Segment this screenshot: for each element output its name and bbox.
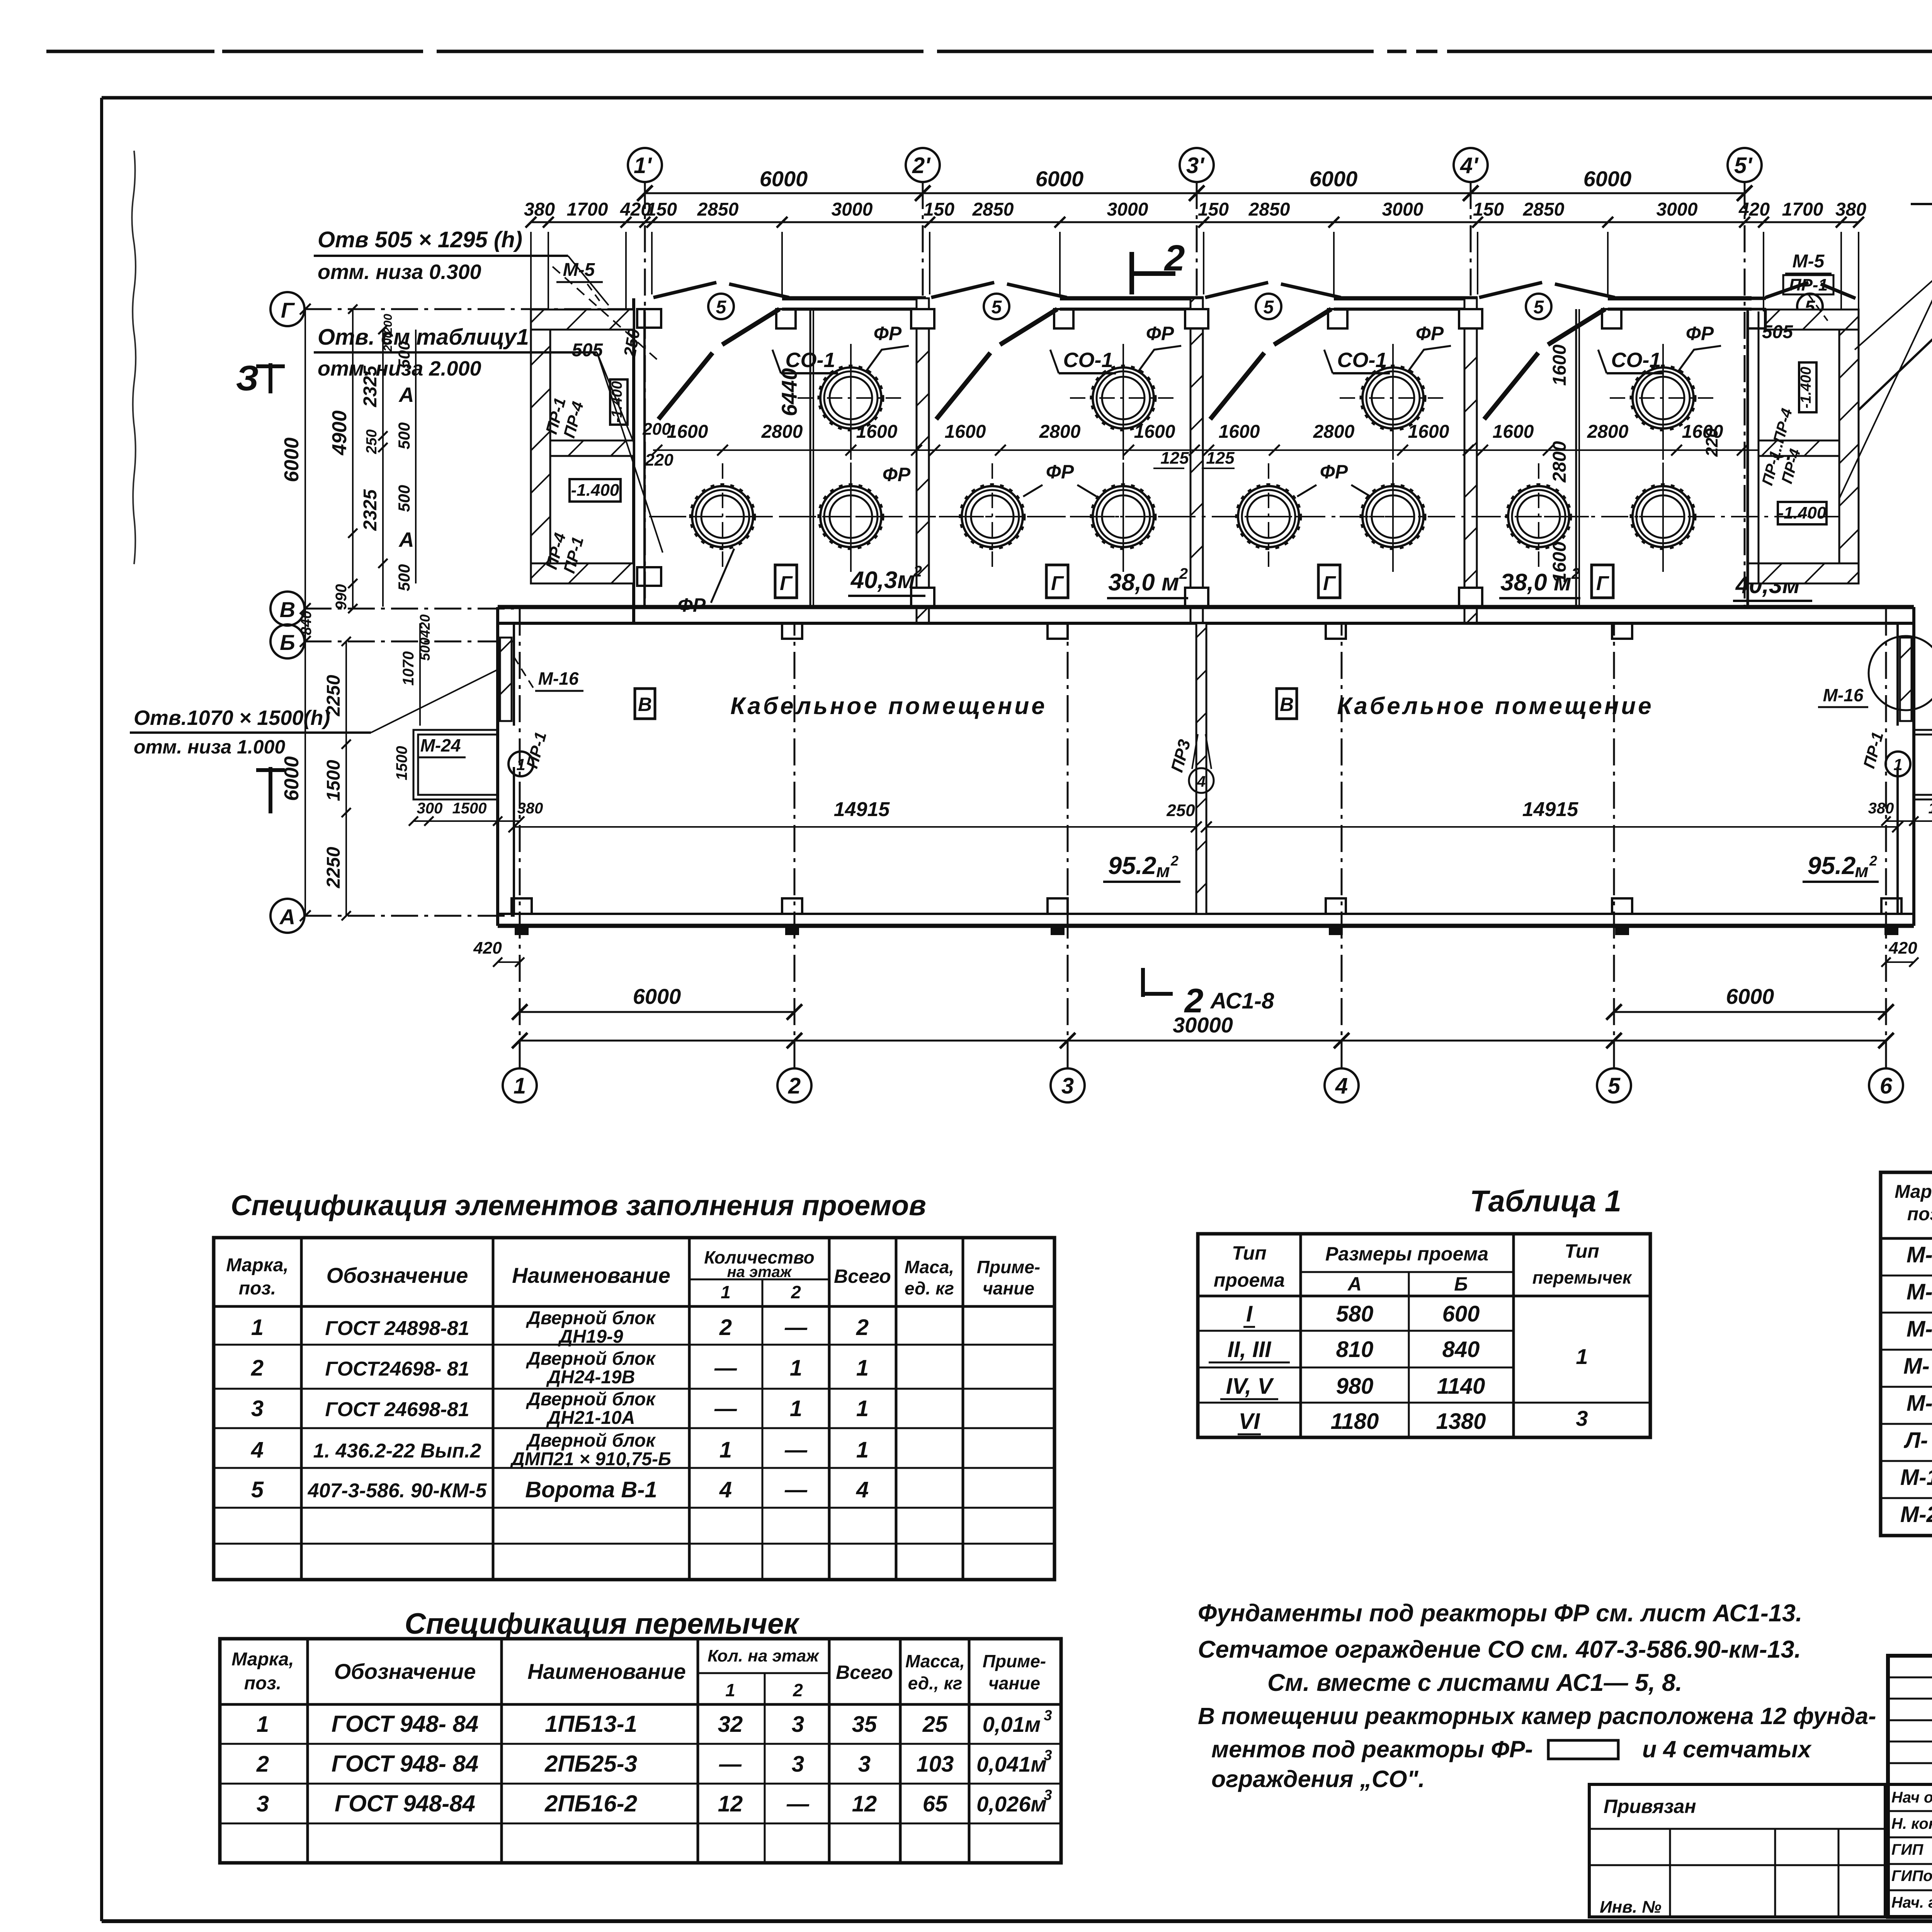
- top dimension row 6000 spacing: [645, 192, 1745, 194]
- svg-text:СО-1: СО-1: [1337, 349, 1387, 372]
- svg-text:ДН19-9: ДН19-9: [558, 1327, 623, 1347]
- svg-text:-1.400: -1.400: [1798, 367, 1814, 408]
- svg-text:150: 150: [646, 199, 677, 220]
- svg-text:6000: 6000: [1583, 167, 1632, 191]
- hatched chamber divider walls at 2p 3p 4p: [917, 298, 929, 623]
- svg-text:5: 5: [1608, 1073, 1621, 1099]
- gate label circles 5: [708, 294, 734, 319]
- svg-text:32: 32: [718, 1712, 743, 1737]
- svg-text:5: 5: [1264, 297, 1274, 318]
- cable block east wall: [1912, 607, 1915, 926]
- svg-text:6000: 6000: [281, 437, 303, 482]
- svg-text:ПР-1: ПР-1: [1789, 276, 1828, 294]
- svg-text:ГОСТ 948- 84: ГОСТ 948- 84: [332, 1711, 479, 1737]
- reactor foundation FR top 3: [1340, 344, 1446, 572]
- right annex west wall: [1747, 311, 1749, 607]
- svg-text:380: 380: [517, 800, 543, 817]
- svg-text:А: А: [398, 528, 414, 551]
- М-24 annex right: [1914, 730, 1932, 799]
- Таблица 1 box: [1198, 1234, 1650, 1437]
- table металлоконструкции box: [1881, 1172, 1932, 1536]
- svg-text:1: 1: [856, 1396, 869, 1421]
- svg-text:ГОСТ 948- 84: ГОСТ 948- 84: [332, 1751, 479, 1777]
- svg-text:Инв. №: Инв. №: [1600, 1898, 1662, 1917]
- section mark 2 bottom: [1141, 968, 1145, 997]
- svg-text:1500: 1500: [452, 800, 487, 817]
- svg-text:3000: 3000: [832, 199, 873, 220]
- svg-text:Дверной блок: Дверной блок: [526, 1389, 656, 1410]
- svg-text:Приме-: Приме-: [983, 1651, 1046, 1671]
- svg-text:6000: 6000: [1036, 167, 1084, 191]
- М-16 louvre strip left: [500, 638, 512, 721]
- svg-text:6000: 6000: [760, 167, 808, 191]
- room marker Г: [1046, 565, 1068, 598]
- svg-text:1600: 1600: [1134, 422, 1175, 442]
- cable block top wall (shared): [498, 605, 1914, 609]
- svg-text:1: 1: [721, 1282, 731, 1302]
- sheet top edge line: [46, 50, 214, 53]
- svg-text:Масса,: Масса,: [905, 1651, 965, 1671]
- svg-text:ФР: ФР: [1686, 323, 1714, 344]
- fence СО-1 chamber 2: [936, 353, 990, 419]
- left annex interior divider: [550, 440, 634, 456]
- svg-text:Отв.1070 × 1500(h): Отв.1070 × 1500(h): [134, 706, 330, 730]
- svg-text:Дверной блок: Дверной блок: [526, 1349, 656, 1369]
- svg-text:1: 1: [1576, 1344, 1588, 1369]
- svg-text:125: 125: [1160, 449, 1189, 468]
- reactor foundation FR bottom 5: [1215, 463, 1322, 570]
- svg-text:103: 103: [917, 1752, 954, 1777]
- grid circle letter Г: [270, 292, 304, 326]
- paper fold line: [132, 151, 136, 564]
- svg-text:0,041м: 0,041м: [976, 1752, 1047, 1776]
- М-16 louvre strip right: [1900, 638, 1912, 721]
- reactor foundation FR bottom 8: [1610, 463, 1716, 572]
- svg-text:отм. низа 1.000: отм. низа 1.000: [134, 736, 285, 758]
- svg-text:Б: Б: [280, 630, 295, 655]
- svg-text:ГОСТ 948-84: ГОСТ 948-84: [335, 1791, 475, 1816]
- svg-text:Г: Г: [1596, 572, 1609, 595]
- svg-text:25: 25: [922, 1712, 948, 1737]
- svg-text:1600: 1600: [945, 422, 986, 442]
- svg-text:1180: 1180: [1331, 1409, 1379, 1434]
- left dim chain 2325 250 2325: [382, 330, 384, 607]
- svg-text:1': 1': [634, 153, 652, 178]
- right annex hatched bottom wall: [1748, 563, 1859, 583]
- svg-text:ГИП: ГИП: [1891, 1841, 1923, 1858]
- svg-text:В: В: [638, 694, 652, 715]
- svg-text:420: 420: [1738, 199, 1770, 220]
- svg-text:3: 3: [1061, 1073, 1074, 1099]
- left dim chain 6000: [304, 309, 306, 916]
- cable block west wall: [496, 607, 499, 926]
- svg-text:Размеры проема: Размеры проема: [1325, 1243, 1488, 1265]
- М-16 detail circle right: [1869, 636, 1932, 710]
- grid circle letter Б: [270, 624, 304, 658]
- second dimension row detailed: [531, 221, 1859, 223]
- svg-text:2800: 2800: [1039, 422, 1081, 442]
- svg-text:1500: 1500: [393, 746, 410, 781]
- svg-text:3: 3: [257, 1791, 269, 1816]
- svg-text:—: —: [784, 1437, 808, 1463]
- svg-text:Обозначение: Обозначение: [334, 1659, 476, 1684]
- svg-text:5': 5': [1734, 153, 1753, 178]
- svg-text:6440: 6440: [777, 368, 801, 417]
- svg-text:2ПБ25-3: 2ПБ25-3: [544, 1751, 637, 1777]
- svg-text:1140: 1140: [1437, 1374, 1485, 1399]
- svg-text:I: I: [1246, 1301, 1253, 1327]
- svg-text:2: 2: [719, 1315, 732, 1340]
- cable block bottom wall: [498, 913, 1914, 915]
- svg-text:Отв. см таблицу1: Отв. см таблицу1: [318, 325, 529, 350]
- svg-text:2850: 2850: [1248, 199, 1290, 220]
- reactor foundation FR bottom 1: [669, 463, 776, 570]
- svg-text:проема: проема: [1214, 1269, 1285, 1291]
- svg-text:12: 12: [718, 1791, 743, 1816]
- svg-text:1600: 1600: [1549, 344, 1570, 386]
- svg-text:отм. низа 0.300: отм. низа 0.300: [318, 260, 481, 284]
- svg-text:ДН21-10А: ДН21-10А: [546, 1408, 635, 1428]
- svg-text:125: 125: [1206, 449, 1235, 468]
- svg-text:3000: 3000: [1656, 199, 1698, 220]
- svg-text:ФР: ФР: [883, 464, 911, 485]
- reactor foundation FR top 1: [798, 344, 904, 572]
- svg-text:ФР: ФР: [1046, 461, 1074, 483]
- reactor block top wall segments: [782, 296, 926, 301]
- svg-text:2: 2: [1170, 853, 1179, 869]
- svg-text:2ПБ16-2: 2ПБ16-2: [544, 1791, 637, 1816]
- svg-text:0,026м: 0,026м: [976, 1792, 1047, 1816]
- svg-text:Отв 505 × 1295 (h): Отв 505 × 1295 (h): [318, 227, 522, 252]
- svg-text:Таблица 1: Таблица 1: [1470, 1184, 1621, 1218]
- svg-text:В: В: [280, 597, 295, 622]
- svg-text:—: —: [784, 1315, 808, 1340]
- svg-text:65: 65: [923, 1791, 948, 1816]
- svg-text:1070: 1070: [400, 651, 417, 686]
- grid circle letter А: [270, 899, 304, 933]
- svg-text:М-5: М-5: [563, 260, 595, 280]
- svg-text:1: 1: [719, 1437, 732, 1463]
- svg-text:1: 1: [856, 1355, 869, 1381]
- svg-text:220: 220: [645, 451, 673, 469]
- svg-text:3: 3: [1576, 1406, 1588, 1430]
- svg-text:0,01м: 0,01м: [983, 1712, 1041, 1736]
- grid circle 4: [1325, 1068, 1359, 1102]
- svg-text:ФР: ФР: [1416, 323, 1444, 344]
- grid circle 1: [503, 1068, 537, 1102]
- svg-text:2: 2: [251, 1355, 264, 1381]
- svg-text:ФР: ФР: [1146, 323, 1174, 344]
- svg-text:420: 420: [417, 614, 433, 638]
- svg-text:Фундаменты под реакторы ФР: Фундаменты под реакторы ФР см. лист АС1-…: [1198, 1600, 1802, 1627]
- svg-text:35: 35: [852, 1712, 877, 1737]
- svg-text:300: 300: [417, 800, 443, 817]
- svg-text:1ПБ13-1: 1ПБ13-1: [545, 1711, 637, 1737]
- fence СО-1 chamber 4: [1484, 353, 1538, 419]
- right annex top wall stub: [1752, 297, 1766, 300]
- svg-text:5: 5: [251, 1477, 264, 1502]
- svg-text:Марка,: Марка,: [226, 1255, 289, 1276]
- svg-text:Г: Г: [780, 572, 793, 595]
- svg-text:1: 1: [257, 1712, 269, 1737]
- cable block middle wall ПР3: [1196, 623, 1206, 914]
- svg-text:420: 420: [1888, 939, 1917, 957]
- svg-text:3: 3: [1044, 1708, 1052, 1724]
- svg-text:3: 3: [1044, 1787, 1052, 1803]
- svg-text:ДН24-19В: ДН24-19В: [546, 1367, 635, 1388]
- svg-text:А: А: [398, 383, 414, 406]
- svg-text:40,3м: 40,3м: [850, 567, 915, 594]
- svg-text:150: 150: [1473, 199, 1504, 220]
- grid circle 2p: [906, 148, 940, 182]
- grid circle letter В: [270, 592, 304, 626]
- svg-text:1: 1: [790, 1355, 802, 1381]
- fence СО-1 right annex diagonal: [1851, 336, 1932, 417]
- svg-text:505: 505: [1762, 322, 1793, 342]
- svg-text:2325: 2325: [360, 489, 381, 531]
- grid circle 2: [777, 1068, 811, 1102]
- svg-text:500: 500: [395, 422, 413, 449]
- svg-text:2850: 2850: [697, 199, 739, 220]
- svg-text:Кол. на этаж: Кол. на этаж: [707, 1646, 820, 1665]
- dim lines left annex bottom: [413, 820, 520, 822]
- svg-text:2850: 2850: [1523, 199, 1565, 220]
- svg-text:Наименование: Наименование: [512, 1263, 670, 1287]
- table элементов box: [214, 1238, 1054, 1580]
- dim extension lines top: [530, 232, 532, 309]
- bottom dimension 6000 right: [1614, 1011, 1886, 1013]
- svg-text:Сетчатое ограждение СО см.: Сетчатое ограждение СО см. 407-3-586.90-…: [1198, 1636, 1801, 1663]
- svg-text:Приме-: Приме-: [977, 1257, 1040, 1277]
- svg-text:АС1-8: АС1-8: [1210, 988, 1274, 1014]
- svg-text:1600: 1600: [667, 422, 708, 442]
- dim line 14915 row: [514, 826, 1196, 828]
- room marker В 2: [1277, 689, 1297, 719]
- grid circle 3p: [1180, 148, 1214, 182]
- svg-text:2800: 2800: [1587, 422, 1629, 442]
- svg-text:Маса,: Маса,: [905, 1257, 954, 1277]
- svg-text:380: 380: [524, 199, 555, 220]
- door mark ПР-1 right: [1886, 752, 1910, 776]
- reactor foundation FR bottom 2: [798, 463, 904, 572]
- svg-text:ФР: ФР: [1320, 461, 1348, 483]
- svg-text:1600: 1600: [1219, 422, 1260, 442]
- svg-text:980: 980: [1336, 1374, 1374, 1399]
- door mark ПР-1 left: [509, 752, 533, 776]
- svg-text:1700: 1700: [1782, 199, 1823, 220]
- svg-text:4': 4': [1460, 153, 1479, 178]
- svg-text:ГОСТ24698- 81: ГОСТ24698- 81: [325, 1358, 469, 1380]
- title block outer box: [1888, 1656, 1932, 1917]
- svg-text:В помещении реакторных каме: В помещении реакторных камер расположена…: [1198, 1703, 1876, 1729]
- grid circle 1p: [628, 148, 662, 182]
- svg-text:95.2: 95.2: [1808, 852, 1856, 879]
- svg-text:6000: 6000: [1726, 984, 1774, 1009]
- svg-text:ед., кг: ед., кг: [908, 1673, 963, 1693]
- svg-text:-1.400: -1.400: [571, 481, 619, 500]
- svg-text:1: 1: [251, 1315, 264, 1340]
- svg-text:5: 5: [992, 297, 1002, 318]
- svg-text:2: 2: [788, 1073, 801, 1099]
- svg-text:чание: чание: [983, 1278, 1034, 1298]
- svg-text:поз.: поз.: [1907, 1204, 1932, 1225]
- svg-text:Г: Г: [281, 298, 295, 322]
- gate wings of reactor chambers: [653, 282, 716, 298]
- svg-text:Наименование: Наименование: [527, 1659, 686, 1684]
- bottom dimension 30000: [520, 1040, 1886, 1042]
- svg-text:поз.: поз.: [239, 1278, 276, 1299]
- svg-text:Б: Б: [1454, 1273, 1468, 1295]
- svg-text:2250: 2250: [323, 847, 344, 888]
- svg-text:Спецификация перемычек: Спецификация перемычек: [405, 1607, 800, 1640]
- svg-text:СО-1: СО-1: [1063, 349, 1113, 372]
- svg-text:1: 1: [1893, 755, 1902, 774]
- bottom dimension 6000 left: [520, 1011, 794, 1013]
- svg-text:5: 5: [1534, 297, 1544, 318]
- svg-text:2: 2: [1179, 565, 1188, 582]
- svg-text:и 4 сетчатых: и 4 сетчатых: [1642, 1736, 1812, 1762]
- svg-text:чание: чание: [988, 1673, 1040, 1693]
- dim 420 bottom corners: [498, 961, 520, 963]
- svg-text:6000: 6000: [633, 984, 681, 1009]
- svg-text:Нач отд: Нач отд: [1891, 1789, 1932, 1806]
- grid circle 3: [1051, 1068, 1085, 1102]
- svg-text:Обозначение: Обозначение: [327, 1263, 468, 1287]
- svg-text:1: 1: [856, 1437, 869, 1463]
- svg-text:ед. кг: ед. кг: [905, 1278, 954, 1298]
- svg-text:500: 500: [395, 564, 413, 591]
- svg-text:2: 2: [1164, 238, 1185, 279]
- svg-text:840: 840: [1442, 1337, 1480, 1362]
- reactor foundation FR top 4: [1610, 344, 1716, 572]
- svg-text:380: 380: [1868, 800, 1894, 817]
- svg-text:1600: 1600: [1682, 422, 1723, 442]
- left annex hatched bottom wall: [531, 563, 634, 583]
- svg-text:II, III: II, III: [1228, 1337, 1272, 1362]
- svg-text:Н. контр: Н. контр: [1891, 1815, 1932, 1832]
- svg-text:Г: Г: [1051, 572, 1064, 595]
- svg-text:95.2: 95.2: [1108, 852, 1156, 879]
- left dim chain 500 A 500: [415, 330, 417, 583]
- svg-text:м: м: [1855, 861, 1869, 881]
- fence СО-1 chamber 1: [658, 353, 713, 419]
- right annex level box -1.400: [1778, 502, 1827, 524]
- grid circle 4p: [1454, 148, 1488, 182]
- reactor block west wall: [632, 298, 635, 623]
- svg-text:3: 3: [251, 1396, 264, 1421]
- svg-text:Г: Г: [1323, 572, 1336, 595]
- svg-text:З: З: [236, 359, 259, 398]
- svg-text:ГОСТ 24698-81: ГОСТ 24698-81: [325, 1398, 469, 1421]
- svg-text:М-1: М-1: [1906, 1242, 1932, 1267]
- svg-text:М-16: М-16: [1900, 1465, 1932, 1490]
- room marker В 1: [635, 689, 655, 719]
- svg-text:4900: 4900: [328, 410, 351, 456]
- svg-text:1700: 1700: [567, 199, 608, 220]
- svg-text:2: 2: [913, 563, 922, 580]
- svg-text:3: 3: [858, 1752, 871, 1777]
- section mark 2 top: [1129, 252, 1134, 294]
- svg-text:М-5: М-5: [1793, 251, 1825, 272]
- room marker Г: [1318, 565, 1340, 598]
- svg-text:VI: VI: [1239, 1409, 1261, 1434]
- row grid lines letters dash-dot: [304, 308, 634, 310]
- svg-text:2: 2: [793, 1680, 803, 1700]
- room marker Г: [775, 565, 797, 598]
- svg-text:перемычек: перемычек: [1532, 1267, 1633, 1287]
- svg-text:3': 3': [1186, 153, 1205, 178]
- svg-text:2: 2: [1184, 981, 1204, 1020]
- svg-text:—: —: [786, 1791, 810, 1816]
- fence СО-1 chamber 3: [1210, 353, 1264, 419]
- left dims 1070 500 420: [419, 623, 421, 726]
- svg-text:ДМП21 × 910,75-Б: ДМП21 × 910,75-Б: [510, 1449, 671, 1469]
- reactor foundation FR top 2: [1070, 344, 1177, 572]
- svg-text:4: 4: [719, 1477, 732, 1502]
- svg-text:2: 2: [1571, 565, 1580, 582]
- svg-text:3000: 3000: [1107, 199, 1148, 220]
- svg-text:отм. низа 2.000: отм. низа 2.000: [318, 357, 481, 380]
- svg-text:IV, V: IV, V: [1226, 1374, 1274, 1399]
- right annex hatched east wall: [1839, 310, 1859, 583]
- svg-text:150: 150: [923, 199, 954, 220]
- svg-text:150: 150: [1198, 199, 1229, 220]
- section mark 1 left: [269, 767, 272, 813]
- svg-text:ГОСТ 24898-81: ГОСТ 24898-81: [325, 1317, 469, 1340]
- chamber partition wall bay4: [1575, 309, 1577, 607]
- svg-text:М-24: М-24: [1900, 1502, 1932, 1527]
- svg-text:250: 250: [1166, 801, 1195, 820]
- column grid lines 1..6 vertical dash-dot: [519, 607, 521, 1068]
- svg-text:1600: 1600: [856, 422, 898, 442]
- room marker Г: [1592, 565, 1613, 598]
- svg-text:Дверной блок: Дверной блок: [526, 1308, 656, 1328]
- svg-text:4: 4: [856, 1477, 869, 1502]
- wall pilasters top inner: [782, 623, 802, 639]
- svg-text:38,0 м: 38,0 м: [1108, 569, 1179, 596]
- svg-text:600: 600: [1442, 1301, 1480, 1327]
- svg-text:См. вместе с листами АС1—: См. вместе с листами АС1— 5, 8.: [1267, 1669, 1682, 1696]
- svg-text:14915: 14915: [834, 798, 890, 821]
- svg-text:Тип: Тип: [1232, 1242, 1267, 1264]
- svg-text:Тип: Тип: [1565, 1240, 1599, 1262]
- svg-text:4: 4: [1335, 1073, 1348, 1099]
- svg-text:Кабельное помещение: Кабельное помещение: [1337, 693, 1653, 719]
- svg-text:ментов под реакторы ФР-: ментов под реакторы ФР-: [1211, 1736, 1533, 1762]
- svg-text:407-3-586. 90-КМ-5: 407-3-586. 90-КМ-5: [308, 1480, 487, 1502]
- svg-text:420: 420: [473, 939, 502, 957]
- svg-text:2: 2: [856, 1315, 869, 1340]
- svg-text:М- 4: М- 4: [1903, 1354, 1932, 1379]
- svg-text:1380: 1380: [1436, 1409, 1486, 1434]
- svg-text:СО-1: СО-1: [785, 349, 835, 372]
- svg-text:1600: 1600: [1493, 422, 1534, 442]
- svg-text:3: 3: [792, 1752, 804, 1777]
- svg-text:12: 12: [852, 1791, 877, 1816]
- svg-text:М-16: М-16: [538, 668, 579, 689]
- svg-text:Марка,: Марка,: [1895, 1182, 1932, 1202]
- right annex interior divider: [1759, 440, 1839, 456]
- svg-text:990: 990: [333, 584, 350, 610]
- svg-text:В: В: [1280, 694, 1294, 715]
- svg-text:—: —: [714, 1396, 737, 1421]
- attachment box Привязан: [1589, 1784, 1885, 1917]
- grid circle 6: [1869, 1068, 1903, 1102]
- svg-text:А: А: [1347, 1273, 1362, 1295]
- svg-text:38,0 м: 38,0 м: [1500, 569, 1571, 596]
- svg-text:4: 4: [1197, 773, 1206, 790]
- svg-text:2: 2: [1869, 853, 1877, 869]
